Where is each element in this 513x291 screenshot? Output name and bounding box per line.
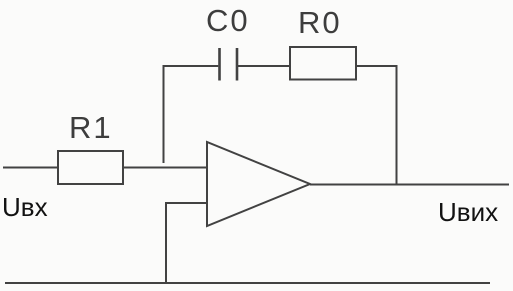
resistor R1 [58,151,123,184]
wire: capacitor C0 to resistor R0 [238,65,290,67]
wire: feedback top run to capacitor C0 [163,65,219,67]
wire: input lead from left edge to R1 [3,167,58,169]
wire: R0 to feedback right vertical drop onto output [356,66,397,185]
svg-text:C0: C0 [206,3,250,38]
wire: output from op-amp to right edge [310,184,509,186]
svg-text:Uвих: Uвих [438,197,498,227]
wire: feedback left vertical drop to input node [163,66,165,163]
wire: bottom rail [5,282,490,284]
op-amp U1 [207,142,310,226]
resistor R0 [290,47,356,80]
svg-text:Uвх: Uвх [2,192,48,222]
svg-text:R1: R1 [69,110,113,145]
wire: non-inverting input L from bottom rail [166,203,207,283]
capacitor C0 plates [220,48,238,81]
svg-text:R0: R0 [298,5,342,40]
wire: R1 to op-amp inverting input [123,167,207,169]
